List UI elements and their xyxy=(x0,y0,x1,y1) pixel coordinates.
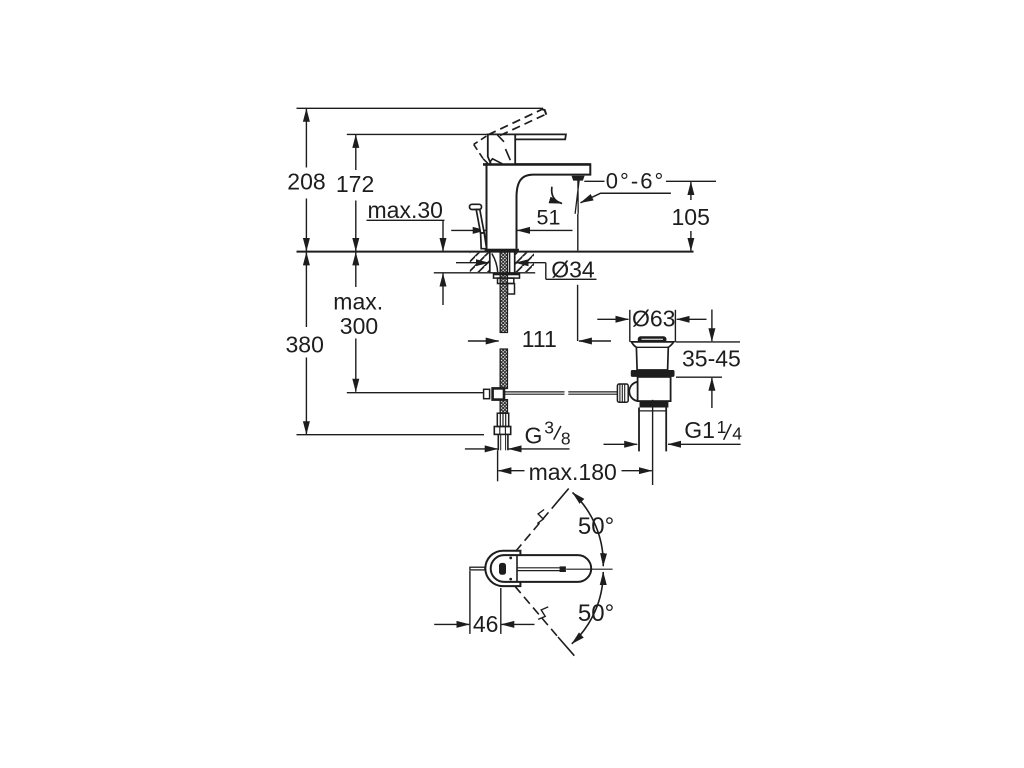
svg-text:max.180: max.180 xyxy=(529,459,617,485)
thread nipple xyxy=(498,434,508,450)
top view outer body xyxy=(485,551,520,586)
dimension 111 xyxy=(468,340,611,342)
arc 50 lower xyxy=(572,572,603,644)
label G1 1/4 xyxy=(684,417,742,443)
dashed raised lever xyxy=(488,110,546,136)
deck underside line xyxy=(434,272,535,274)
drain knob xyxy=(638,337,665,342)
handle block inner diagonals xyxy=(490,135,511,164)
stream angle lines xyxy=(575,181,579,214)
svg-text:300: 300 xyxy=(340,313,378,339)
max30 leader down arrow xyxy=(442,220,444,251)
handle block xyxy=(488,134,515,164)
deck hatch left xyxy=(470,253,490,272)
lever bar xyxy=(515,134,566,139)
extension line 172 / lever top xyxy=(347,133,519,135)
deck line xyxy=(297,251,694,253)
dimension 172 vertical xyxy=(355,135,357,251)
label G3/8 xyxy=(525,417,571,448)
dimension G3/8 arrows xyxy=(465,448,570,450)
svg-text:Ø63: Ø63 xyxy=(632,305,675,331)
knurled nut xyxy=(617,384,628,402)
pop-up rod stem xyxy=(476,210,484,234)
svg-text:0°-6°: 0°-6° xyxy=(606,168,664,193)
lever tip stub left xyxy=(470,567,485,570)
screw dots xyxy=(509,557,512,581)
svg-text:172: 172 xyxy=(336,171,374,197)
faucet body outline xyxy=(483,164,590,248)
svg-text:G: G xyxy=(525,423,543,449)
svg-text:46: 46 xyxy=(473,611,499,637)
aerator xyxy=(572,176,585,181)
ball housing xyxy=(629,382,637,401)
dimension Ø63 xyxy=(597,318,706,320)
bottom reference line (380) xyxy=(297,434,485,436)
shank walls xyxy=(490,252,515,273)
svg-text:G1: G1 xyxy=(684,417,715,443)
D mark xyxy=(499,563,506,575)
svg-text:105: 105 xyxy=(672,204,710,230)
braided hose lower xyxy=(500,400,507,414)
svg-text:50°: 50° xyxy=(578,600,614,627)
stream extension line upper xyxy=(577,214,579,251)
Ø34 arrow left xyxy=(456,262,489,264)
drain gasket xyxy=(631,370,675,377)
shank inner curve xyxy=(492,254,498,273)
drain body xyxy=(638,377,671,401)
lever slot xyxy=(517,568,560,571)
open lever dashed lower xyxy=(515,586,574,656)
linkage rod right xyxy=(504,392,618,394)
svg-text:380: 380 xyxy=(286,332,324,358)
angle arc arrow xyxy=(552,187,562,204)
dimension max300 vertical xyxy=(355,252,357,391)
shank inner line xyxy=(509,252,511,273)
svg-text:208: 208 xyxy=(287,169,325,195)
braided hose middle xyxy=(500,349,507,389)
dimension 51 xyxy=(517,229,572,231)
svg-text:51: 51 xyxy=(537,206,561,230)
label 0-6 line right xyxy=(666,180,716,182)
hex nut xyxy=(494,427,510,435)
dimension 208 vertical xyxy=(305,109,307,251)
label 0-6 line left xyxy=(584,180,604,182)
pop-up rod knob xyxy=(470,204,482,209)
svg-text:max.30: max.30 xyxy=(368,197,443,223)
mounting nut xyxy=(494,273,520,278)
dimension G1 1/4 arrows xyxy=(604,443,741,445)
max30 below-deck up arrow xyxy=(442,274,444,306)
linkage rod left clip xyxy=(484,389,490,398)
arc 50 upper xyxy=(573,493,604,567)
svg-text:8: 8 xyxy=(561,428,571,448)
46 extension lines xyxy=(470,571,501,634)
raised lever tip cap xyxy=(541,109,546,115)
side tube stub xyxy=(508,284,515,295)
svg-text:max.: max. xyxy=(333,288,383,314)
open lever dashed upper xyxy=(515,489,569,553)
max30 horizontal arrow to body xyxy=(451,229,486,231)
svg-text:1: 1 xyxy=(717,417,727,437)
svg-text:3: 3 xyxy=(544,417,554,437)
ferrule xyxy=(497,413,508,426)
deck hatch right xyxy=(515,253,534,272)
faucet top plate thick edge xyxy=(483,163,590,166)
svg-text:Ø34: Ø34 xyxy=(551,257,595,283)
drain lower dark band xyxy=(640,401,669,407)
35-45 extension lines xyxy=(676,342,741,377)
dimension 35-45 xyxy=(711,310,713,409)
Ø34 arrow right and leader xyxy=(516,263,597,280)
collar xyxy=(498,278,514,283)
extension line top (max height) xyxy=(297,107,544,109)
drain centerline xyxy=(652,400,654,485)
dashed raised block xyxy=(474,136,489,164)
extension line max300 bottom / rod line xyxy=(347,392,484,394)
dimension 105 vertical xyxy=(690,182,692,251)
Ø63 extension lines xyxy=(630,310,676,342)
svg-text:4: 4 xyxy=(732,423,742,443)
centerline stub right xyxy=(566,568,612,570)
dimension max180 xyxy=(498,470,651,472)
drain flange xyxy=(631,342,673,370)
faucet axis extension xyxy=(497,450,499,481)
stream extension line lower xyxy=(577,285,579,341)
dimension 380 vertical xyxy=(305,252,307,434)
linkage rod clamp block xyxy=(493,388,504,399)
svg-text:35-45: 35-45 xyxy=(682,345,741,371)
dimension 46 xyxy=(434,623,534,625)
pop-up rod base xyxy=(481,233,487,249)
drain tailpipe xyxy=(639,408,666,452)
base plate xyxy=(485,249,519,252)
slot end cap xyxy=(560,566,566,572)
angle leader arrow xyxy=(581,193,671,203)
top view lever capsule xyxy=(491,555,592,582)
svg-text:111: 111 xyxy=(522,326,557,352)
svg-text:50°: 50° xyxy=(578,513,614,540)
braided hose upper xyxy=(500,252,507,333)
